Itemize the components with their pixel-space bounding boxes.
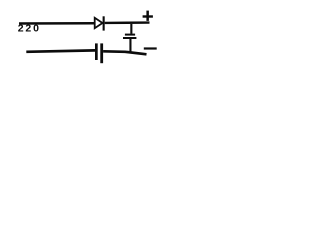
wire bbox=[26, 50, 95, 51]
wire bbox=[105, 21, 150, 24]
capacitor C2 bbox=[95, 43, 103, 63]
capacitor C1 bbox=[123, 24, 136, 52]
minus terminal bbox=[144, 47, 157, 49]
wire bbox=[103, 51, 146, 54]
wire bbox=[19, 22, 95, 25]
svg-text:220: 220 bbox=[18, 23, 41, 35]
diode bbox=[95, 16, 105, 30]
label 220 bbox=[18, 23, 41, 35]
plus terminal bbox=[143, 11, 153, 21]
